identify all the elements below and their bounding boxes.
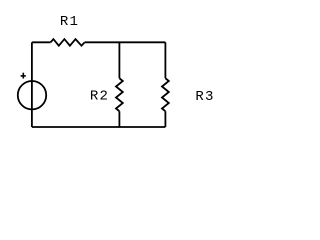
svg-text:R1: R1 xyxy=(60,14,79,30)
wire right vertical bottom xyxy=(164,111,166,127)
resistor R1 xyxy=(51,39,85,46)
wire top-left segment xyxy=(32,41,51,43)
voltage source plus sign xyxy=(21,73,26,79)
svg-text:R2: R2 xyxy=(90,89,109,105)
resistor R2 xyxy=(116,78,123,111)
voltage source V1 circle xyxy=(18,81,46,109)
wire left vertical xyxy=(31,42,33,127)
svg-text:R3: R3 xyxy=(195,89,214,105)
wire R2 branch bottom xyxy=(118,111,120,127)
wire top-middle segment xyxy=(85,41,166,43)
wire R2 branch top xyxy=(118,42,120,78)
wire right vertical top xyxy=(164,42,166,78)
resistor R3 xyxy=(162,78,169,111)
wire bottom segment xyxy=(32,126,166,128)
